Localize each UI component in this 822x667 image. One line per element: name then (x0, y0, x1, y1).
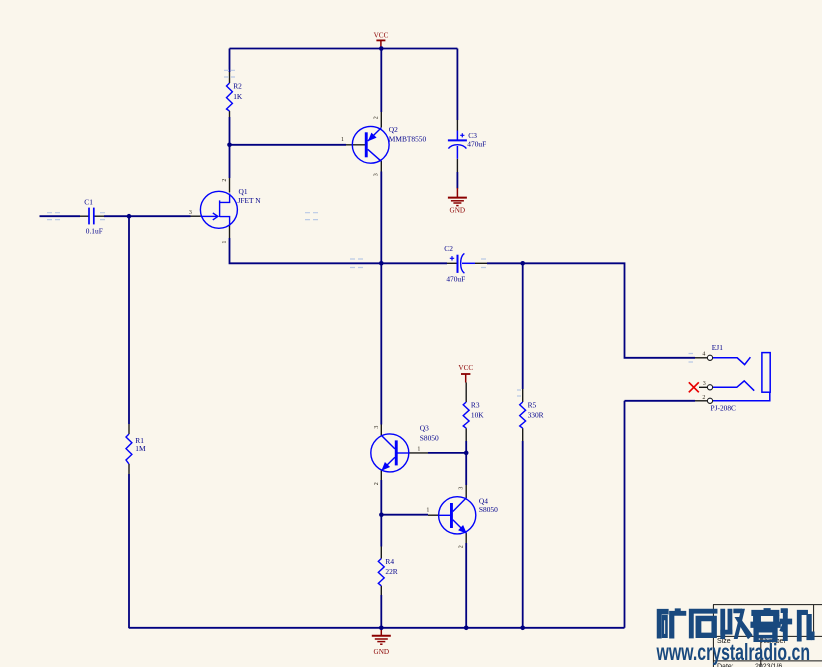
svg-text:R3: R3 (471, 401, 480, 410)
svg-text:330R: 330R (528, 410, 544, 419)
svg-text:S8050: S8050 (479, 505, 498, 514)
svg-text:C2: C2 (444, 244, 453, 253)
svg-text:R2: R2 (233, 82, 242, 91)
svg-text:C1: C1 (84, 197, 93, 206)
svg-text:3: 3 (373, 173, 379, 176)
svg-text:1: 1 (341, 137, 344, 143)
svg-text:2: 2 (374, 482, 380, 485)
svg-text:2: 2 (222, 179, 228, 182)
svg-text:3: 3 (703, 381, 706, 387)
svg-text:EJ1: EJ1 (712, 343, 723, 352)
svg-text:JFET N: JFET N (238, 196, 262, 205)
svg-text:www.crystalradio.cn: www.crystalradio.cn (656, 639, 810, 665)
svg-text:10K: 10K (471, 410, 484, 419)
svg-text:Q1: Q1 (239, 187, 248, 196)
svg-text:3: 3 (374, 426, 380, 429)
svg-text:S8050: S8050 (420, 434, 439, 443)
svg-text:470uF: 470uF (446, 274, 465, 283)
svg-text:2: 2 (702, 395, 705, 401)
svg-text:3: 3 (459, 487, 465, 490)
svg-text:R5: R5 (528, 401, 537, 410)
svg-text:3: 3 (189, 210, 192, 216)
svg-text:GND: GND (450, 206, 466, 214)
svg-text:1M: 1M (135, 444, 146, 453)
svg-text:1: 1 (426, 508, 429, 514)
svg-text:VCC: VCC (374, 32, 389, 40)
svg-text:2: 2 (373, 116, 379, 119)
svg-text:0.1uF: 0.1uF (86, 226, 103, 235)
svg-text:2: 2 (459, 545, 465, 548)
svg-text:Q3: Q3 (420, 424, 429, 433)
svg-text:22R: 22R (385, 567, 397, 576)
svg-text:1: 1 (222, 241, 228, 244)
svg-text:MMBT8550: MMBT8550 (389, 135, 427, 144)
svg-text:470uF: 470uF (467, 139, 486, 148)
svg-text:4: 4 (702, 352, 705, 358)
svg-text:Q2: Q2 (389, 125, 398, 134)
svg-text:Q4: Q4 (479, 496, 488, 505)
svg-text:PJ-208C: PJ-208C (711, 404, 737, 413)
svg-text:1K: 1K (233, 92, 243, 101)
svg-text:R4: R4 (385, 557, 394, 566)
svg-text:VCC: VCC (458, 364, 473, 372)
svg-text:1: 1 (417, 446, 420, 452)
svg-text:GND: GND (374, 648, 390, 656)
